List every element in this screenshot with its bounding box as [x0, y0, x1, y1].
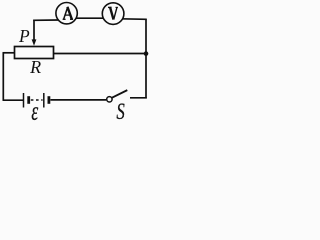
- battery cell 2 long plate: [43, 93, 45, 108]
- battery cell 1 short plate: [27, 96, 30, 104]
- svg-text:P: P: [18, 26, 30, 46]
- svg-text:S: S: [116, 99, 125, 125]
- rheostat R body: [15, 47, 54, 59]
- svg-text:ε: ε: [31, 97, 38, 126]
- wire dashed between cells: [31, 99, 43, 101]
- wire top riser from slider to top wire: [33, 20, 35, 41]
- switch S pivot: [107, 97, 112, 102]
- svg-text:R: R: [29, 57, 41, 77]
- wire switch right stub: [130, 97, 147, 99]
- voltmeter label V: [108, 7, 118, 20]
- wire battery to switch: [51, 99, 107, 101]
- slider arrow P head: [32, 39, 37, 45]
- wire top horizontal middle segment: [64, 17, 116, 19]
- ammeter label A: [63, 7, 74, 20]
- battery cell 1 long plate: [23, 93, 25, 108]
- wire top horizontal right segment: [120, 18, 147, 21]
- ammeter U-A circle: [56, 3, 77, 24]
- wire left stub to rheostat: [3, 52, 16, 54]
- wire bottom left to battery: [3, 99, 24, 101]
- voltmeter U-V circle: [102, 3, 124, 25]
- wire middle horizontal (rheostat right terminal to right vertical): [53, 53, 147, 55]
- battery cell 2 short plate: [48, 96, 51, 104]
- switch S blade: [112, 90, 127, 98]
- wire left vertical: [2, 53, 4, 100]
- wire top horizontal left segment: [33, 19, 58, 21]
- node junction dot: [144, 51, 149, 56]
- wire right vertical: [145, 19, 147, 98]
